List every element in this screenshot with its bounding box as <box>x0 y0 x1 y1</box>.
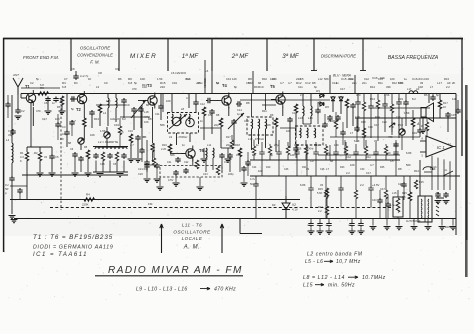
svg-text:4.7: 4.7 <box>288 81 292 85</box>
svg-text:1n: 1n <box>336 81 339 85</box>
svg-text:68: 68 <box>68 141 71 145</box>
svg-text:min. 50Hz: min. 50Hz <box>328 283 355 289</box>
svg-text:R11: R11 <box>378 81 383 85</box>
svg-text:C17: C17 <box>42 117 47 121</box>
svg-text:5p: 5p <box>436 93 439 97</box>
svg-text:2.2: 2.2 <box>360 183 364 187</box>
svg-text:C19: C19 <box>412 131 417 135</box>
svg-text:22p: 22p <box>274 143 279 147</box>
svg-text:4.7: 4.7 <box>130 143 134 147</box>
svg-text:C9: C9 <box>115 67 119 71</box>
svg-text:10K: 10K <box>140 77 145 81</box>
svg-text:12K: 12K <box>232 77 237 81</box>
svg-text:L9 - L10 - L13 - L16: L9 - L10 - L13 - L16 <box>136 287 188 293</box>
svg-text:C19: C19 <box>172 81 177 85</box>
svg-text:470: 470 <box>132 87 137 91</box>
svg-text:100: 100 <box>386 151 391 155</box>
svg-text:68: 68 <box>146 103 149 107</box>
svg-text:C17: C17 <box>380 187 385 191</box>
svg-text:10K: 10K <box>166 99 171 103</box>
svg-text:R6: R6 <box>424 93 428 97</box>
svg-text:100: 100 <box>334 143 339 147</box>
svg-text:R8: R8 <box>246 101 250 105</box>
svg-text:C12: C12 <box>364 77 369 81</box>
svg-text:L7: L7 <box>326 167 329 171</box>
svg-text:100: 100 <box>286 129 291 133</box>
svg-text:6.8K: 6.8K <box>354 139 360 143</box>
svg-text:R13: R13 <box>414 169 419 173</box>
svg-text:33: 33 <box>320 183 323 187</box>
svg-text:C17: C17 <box>374 123 379 127</box>
svg-text:2.2: 2.2 <box>346 171 350 175</box>
svg-text:6.8K: 6.8K <box>406 151 412 155</box>
svg-text:L5-NANDO: L5-NANDO <box>171 71 187 75</box>
svg-text:C17: C17 <box>340 87 345 91</box>
svg-text:L15: L15 <box>303 283 313 289</box>
svg-text:C12: C12 <box>236 153 241 157</box>
svg-text:1n: 1n <box>306 151 309 155</box>
svg-text:2.2: 2.2 <box>300 93 304 97</box>
svg-text:33: 33 <box>374 139 377 143</box>
svg-text:470: 470 <box>356 93 361 97</box>
svg-text:R11: R11 <box>246 163 251 167</box>
svg-text:L17: L17 <box>437 81 442 85</box>
svg-text:6.8: 6.8 <box>62 85 67 89</box>
svg-text:5p: 5p <box>71 107 74 111</box>
svg-text:470 KHz: 470 KHz <box>214 287 236 293</box>
svg-text:C17: C17 <box>366 171 371 175</box>
svg-text:C16-63n: C16-63n <box>412 77 424 81</box>
svg-text:C5: C5 <box>120 130 124 134</box>
svg-text:470: 470 <box>36 109 41 113</box>
svg-text:L7: L7 <box>394 143 397 147</box>
svg-text:C12: C12 <box>294 143 299 147</box>
svg-text:220: 220 <box>160 85 165 89</box>
svg-text:R8: R8 <box>150 163 154 167</box>
svg-text:VM: VM <box>398 81 403 85</box>
svg-text:1.5K: 1.5K <box>100 129 106 133</box>
svg-text:C12: C12 <box>305 81 311 85</box>
svg-text:C12: C12 <box>346 155 351 159</box>
svg-text:C12: C12 <box>244 119 249 123</box>
svg-text:R8: R8 <box>148 117 152 121</box>
svg-text:12K: 12K <box>290 153 295 157</box>
svg-text:470: 470 <box>400 183 405 187</box>
svg-text:R6: R6 <box>57 105 61 109</box>
svg-text:C19: C19 <box>114 123 119 127</box>
svg-text:L6: L6 <box>205 69 209 73</box>
svg-text:12K: 12K <box>106 99 111 103</box>
svg-text:5p: 5p <box>270 153 273 157</box>
svg-text:LOCALE: LOCALE <box>182 236 203 241</box>
svg-text:4.7: 4.7 <box>72 119 76 123</box>
svg-text:2.2: 2.2 <box>446 85 450 89</box>
svg-text:R13: R13 <box>94 117 99 121</box>
svg-text:10.7MHz: 10.7MHz <box>362 275 386 281</box>
svg-text:1.5K: 1.5K <box>384 93 390 97</box>
svg-text:10K: 10K <box>55 117 60 121</box>
svg-text:R8: R8 <box>312 81 316 85</box>
svg-text:R6: R6 <box>252 153 256 157</box>
svg-text:12: 12 <box>216 81 220 85</box>
svg-text:100: 100 <box>258 169 263 173</box>
svg-text:L7: L7 <box>350 131 353 135</box>
svg-text:L7: L7 <box>430 85 433 89</box>
svg-text:C19: C19 <box>398 97 403 101</box>
svg-text:C9: C9 <box>310 159 314 163</box>
svg-text:C15 - 10n: C15 - 10n <box>341 77 355 81</box>
svg-text:56K: 56K <box>170 153 175 157</box>
svg-text:C14: C14 <box>185 77 191 81</box>
svg-text:22p: 22p <box>352 81 357 85</box>
svg-text:12K: 12K <box>452 97 457 101</box>
svg-text:56K: 56K <box>160 123 165 127</box>
svg-text:6.8K: 6.8K <box>300 183 306 187</box>
svg-text:68: 68 <box>330 159 333 163</box>
svg-text:RADIO MIVAR AM - FM: RADIO MIVAR AM - FM <box>108 265 243 276</box>
svg-text:33: 33 <box>306 167 309 171</box>
svg-text:A. M.: A. M. <box>183 245 201 251</box>
svg-text:1n: 1n <box>182 143 185 147</box>
svg-text:470: 470 <box>388 135 393 139</box>
svg-text:R10: R10 <box>258 85 264 89</box>
svg-text:22p: 22p <box>214 123 219 127</box>
svg-text:R11: R11 <box>262 109 267 113</box>
svg-text:C8: C8 <box>98 71 102 75</box>
svg-text:56K: 56K <box>324 77 329 81</box>
svg-text:100: 100 <box>390 77 395 81</box>
svg-text:AF: AF <box>447 81 451 85</box>
svg-text:L5 - L6: L5 - L6 <box>305 259 323 265</box>
svg-text:10K: 10K <box>350 163 355 167</box>
svg-text:33: 33 <box>420 81 423 85</box>
svg-text:1n: 1n <box>200 119 203 123</box>
svg-text:C9: C9 <box>126 103 130 107</box>
svg-text:22p: 22p <box>226 143 231 147</box>
svg-text:4.7: 4.7 <box>370 163 374 167</box>
svg-text:R11: R11 <box>314 143 319 147</box>
svg-text:220: 220 <box>296 77 301 81</box>
svg-text:2.2: 2.2 <box>362 135 366 139</box>
svg-text:C5: C5 <box>140 147 144 151</box>
svg-text:C16 - 63n: C16 - 63n <box>372 76 386 80</box>
svg-text:56K: 56K <box>248 81 253 85</box>
svg-text:L8 = L12 - L14: L8 = L12 - L14 <box>303 275 345 281</box>
svg-text:6.8: 6.8 <box>128 81 133 85</box>
svg-text:L7: L7 <box>340 187 343 191</box>
svg-text:4.7: 4.7 <box>186 96 190 100</box>
svg-text:10K: 10K <box>90 133 95 137</box>
svg-text:R11: R11 <box>366 155 371 159</box>
svg-text:1.5K: 1.5K <box>430 167 436 171</box>
svg-text:22p: 22p <box>326 151 331 155</box>
svg-text:56K: 56K <box>266 123 271 127</box>
svg-text:R13: R13 <box>398 123 403 127</box>
svg-text:R13: R13 <box>370 97 375 101</box>
svg-text:IC1 = TAA611: IC1 = TAA611 <box>33 252 88 258</box>
svg-text:10,7 MHz: 10,7 MHz <box>336 259 361 265</box>
svg-text:6.8K: 6.8K <box>318 101 324 105</box>
svg-text:DIODI = GERMANIO AA119: DIODI = GERMANIO AA119 <box>33 245 113 251</box>
svg-text:56K: 56K <box>406 163 411 167</box>
svg-text:R8: R8 <box>398 167 402 171</box>
svg-text:8.2: 8.2 <box>122 117 126 121</box>
svg-text:1.5K: 1.5K <box>404 111 410 115</box>
svg-text:8.2: 8.2 <box>412 97 416 101</box>
svg-text:10K: 10K <box>270 77 275 81</box>
svg-text:8.2: 8.2 <box>46 97 50 101</box>
svg-text:C5: C5 <box>390 159 394 163</box>
svg-text:1n: 1n <box>256 143 259 147</box>
svg-text:33: 33 <box>328 119 331 123</box>
svg-text:L2 centro banda FM: L2 centro banda FM <box>307 252 363 258</box>
svg-text:C9: C9 <box>60 137 64 141</box>
svg-text:C5: C5 <box>208 113 212 117</box>
svg-text:R13: R13 <box>142 83 147 87</box>
svg-text:R12: R12 <box>296 81 302 85</box>
